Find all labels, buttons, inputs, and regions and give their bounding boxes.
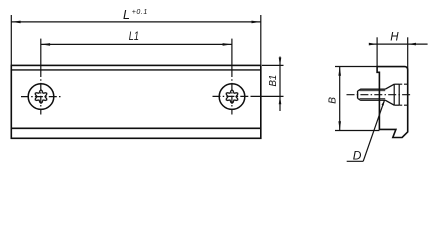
dimension L1 arrow right bbox=[223, 43, 232, 46]
dimension L arrow left bbox=[11, 21, 20, 24]
svg-text:H: H bbox=[390, 32, 399, 44]
dimension H extension line right bbox=[407, 37, 409, 70]
screw shank outer line top bbox=[360, 88, 385, 90]
screw thread root line bottom bbox=[360, 98, 386, 100]
dimension B1 arrow bottom (outside, pointing up) bbox=[279, 96, 282, 104]
dimension B1 arrow top (outside, pointing down) bbox=[279, 58, 282, 66]
screw 1 horizontal centerline bbox=[21, 96, 61, 98]
top chamfer edge line bbox=[11, 69, 260, 71]
screw 1 vertical centerline / L1 extension bbox=[40, 39, 42, 70]
svg-text:B1: B1 bbox=[268, 75, 279, 87]
screw shank end chamfer top bbox=[358, 89, 361, 91]
strip outline side view with top-left step and bottom hook lip bbox=[377, 67, 408, 138]
label D leader underline bbox=[347, 160, 364, 162]
screw shank end chamfer bottom bbox=[358, 98, 361, 100]
screw shank outer line bottom bbox=[360, 99, 385, 101]
hidden bore line bottom bbox=[399, 104, 408, 106]
label D leader diagonal bbox=[363, 100, 384, 161]
dimension H arrow right (outside, pointing left) bbox=[408, 43, 416, 46]
dimension B arrow bottom (inside, pointing down) bbox=[338, 121, 341, 130]
screw shank end face bbox=[357, 91, 359, 98]
countersunk head cone top bbox=[385, 84, 394, 89]
label D leader arrowhead bbox=[382, 100, 385, 106]
screw 1 torx recess bbox=[35, 90, 47, 103]
countersunk head cone bottom bbox=[385, 100, 394, 105]
counterbore wall bottom bbox=[394, 104, 399, 106]
dimension B bottom extension line bbox=[335, 130, 379, 132]
counterbore bottom vertical bbox=[398, 84, 400, 105]
svg-text:+0.1: +0.1 bbox=[132, 9, 148, 16]
strip outline front view bbox=[11, 65, 260, 138]
dimension L arrow right bbox=[252, 21, 261, 24]
svg-text:D: D bbox=[353, 149, 362, 163]
screw horizontal centerline bbox=[347, 94, 412, 96]
hidden bore line top bbox=[399, 83, 408, 85]
head face vertical bbox=[393, 84, 395, 105]
svg-text:L: L bbox=[123, 8, 130, 22]
dimension L extension line left bbox=[10, 15, 12, 65]
screw 1 head circle bbox=[28, 84, 54, 110]
counterbore wall top bbox=[394, 83, 399, 85]
screw 2 horizontal centerline extended as B1 extension bbox=[213, 95, 253, 97]
screw 2 torx recess bbox=[226, 90, 238, 103]
dimension L1 arrow left bbox=[41, 43, 50, 46]
dimension H line bbox=[370, 43, 428, 45]
dimension B top extension line bbox=[335, 66, 377, 68]
svg-text:L1: L1 bbox=[129, 29, 139, 43]
dimension L line bbox=[11, 21, 260, 23]
dimension L extension line right bbox=[260, 15, 262, 65]
dimension B arrow top (inside, pointing up) bbox=[338, 67, 341, 76]
svg-text:B: B bbox=[328, 97, 339, 104]
dimension B1 line bbox=[279, 57, 281, 112]
dimension L1 line bbox=[41, 43, 232, 45]
dimension B line bbox=[339, 67, 341, 131]
screw thread root line top bbox=[360, 90, 386, 92]
dimension H extension line left bbox=[376, 37, 378, 66]
dimension H arrow left (outside, pointing right) bbox=[369, 43, 377, 46]
screw 2 vertical centerline / L1 extension bbox=[231, 39, 233, 70]
bottom bevel edge line bbox=[11, 127, 260, 129]
dimension B1 top extension line bbox=[262, 64, 284, 66]
screw 2 head circle bbox=[219, 84, 245, 110]
